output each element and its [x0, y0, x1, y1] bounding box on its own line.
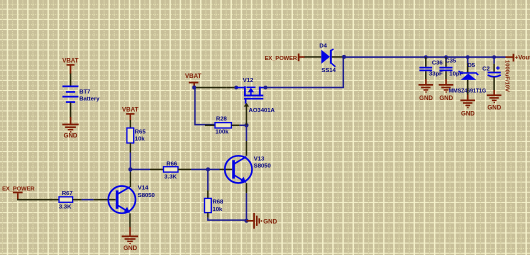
node C junction (emitter/R68/GND) — [245, 219, 249, 223]
svg-text:R68: R68 — [213, 200, 225, 206]
svg-text:EX_POWER: EX_POWER — [265, 56, 298, 62]
ground (battery GND) — [62, 117, 78, 139]
wire rail to C2 — [493, 57, 495, 64]
wire node B down to R68 — [207, 169, 209, 190]
svg-text:VBAT: VBAT — [122, 107, 139, 114]
junction dot V12 source — [234, 86, 238, 90]
svg-text:3.3K: 3.3K — [164, 175, 177, 181]
power port VBAT (V12 branch) — [185, 73, 202, 88]
svg-text:SS14: SS14 — [321, 68, 336, 74]
svg-text:R66: R66 — [166, 162, 178, 168]
wire EX_POWER to R67 — [17, 199, 52, 201]
svg-text:GND: GND — [461, 110, 475, 117]
capacitor C36 — [419, 67, 432, 71]
pin D5 anode — [467, 80, 469, 95]
junction dot D5 on rail — [466, 55, 470, 59]
ground (C36 GND) — [419, 79, 434, 102]
svg-text:GND: GND — [263, 219, 277, 226]
wire battery positive pin — [70, 74, 72, 87]
svg-text:V12: V12 — [243, 78, 254, 84]
svg-text:3.3K: 3.3K — [59, 205, 72, 211]
svg-text:D4: D4 — [319, 43, 327, 49]
pin R28 left — [205, 125, 215, 127]
wire R67 to V14 base — [82, 199, 94, 201]
svg-text:C35: C35 — [445, 59, 457, 65]
resistor R68 — [205, 198, 212, 212]
wire EX_POWER to D4 anode — [305, 56, 313, 58]
pin R66 right — [178, 169, 191, 171]
pin R68 top — [207, 190, 209, 198]
pin R67 right — [73, 199, 82, 201]
junction dot C36 on rail — [424, 55, 428, 59]
power port EX_POWER (right) — [265, 54, 305, 62]
node F junction (D4/drain riser/rail) — [342, 55, 346, 59]
node B junction (R68/V13 base) — [206, 167, 210, 171]
wire V13 emitter to node C — [246, 193, 248, 221]
junction dot C35 on rail — [444, 55, 448, 59]
pin C36 top — [425, 57, 427, 67]
wire output rail — [344, 56, 506, 58]
wire R65 to node A — [130, 153, 132, 170]
pin V13 collector — [246, 141, 248, 156]
power port VBAT (battery branch) — [62, 58, 79, 74]
svg-text:1000uF/10V: 1000uF/10V — [504, 60, 510, 92]
svg-text:VBAT: VBAT — [62, 58, 79, 65]
svg-text:V13: V13 — [254, 156, 265, 162]
svg-text:10k: 10k — [135, 137, 146, 143]
svg-text:VBAT: VBAT — [185, 73, 202, 80]
mosfet V12 AO3401A — [236, 86, 265, 103]
svg-text:33pF: 33pF — [429, 72, 443, 78]
pin V12 source — [226, 87, 236, 89]
pin C35 top — [445, 57, 447, 67]
transistor V13 S8050 — [225, 156, 252, 183]
svg-text:C36: C36 — [432, 61, 444, 67]
junction dot V12 drain — [264, 86, 268, 90]
svg-text:100k: 100k — [215, 129, 229, 135]
svg-text:R67: R67 — [62, 191, 74, 197]
power port +Vout — [506, 54, 530, 62]
node D junction (gate/R28/V13 collector) — [245, 123, 249, 127]
zener diode D5 MMSZ4691T1G — [459, 71, 479, 80]
wire rail to D5 cathode — [467, 57, 469, 63]
pin R66 left — [150, 169, 164, 171]
capacitor C35 — [439, 67, 452, 71]
ground (C35 GND) — [439, 79, 454, 102]
power port EX_POWER (left) — [2, 186, 35, 199]
wire battery negative pin — [70, 103, 72, 118]
ground (V14 GND) — [122, 227, 138, 252]
resistor R67 — [59, 197, 73, 203]
wire V12 drain to output rail riser — [266, 57, 344, 88]
ground (D5 GND) — [460, 95, 475, 118]
diode D4 SS14 schottky — [321, 49, 335, 67]
battery BT7 — [62, 86, 78, 103]
svg-text:AO3401A: AO3401A — [249, 108, 276, 114]
pin V12 gate with arrow — [244, 103, 249, 126]
pin R28 right — [231, 125, 239, 127]
svg-text:GND: GND — [439, 95, 453, 102]
pin R67 left — [50, 199, 59, 201]
pin C2 bottom — [493, 77, 495, 90]
wire node A to R66 — [130, 169, 150, 171]
pin D4 cathode — [332, 56, 343, 58]
transistor V14 S8050 — [108, 186, 135, 213]
svg-text:GND: GND — [64, 132, 78, 139]
resistor R65 — [127, 128, 134, 143]
svg-text:R28: R28 — [216, 116, 228, 122]
svg-text:D5: D5 — [468, 63, 476, 69]
wire R68 to emitter node C — [208, 218, 247, 221]
pin R65 top — [130, 120, 132, 128]
wire R66 to node B — [191, 169, 208, 171]
svg-text:GND: GND — [487, 105, 501, 112]
svg-text:+Vout: +Vout — [515, 56, 530, 62]
ground (V13 GND, rotated right) — [247, 213, 278, 229]
node E junction (VBAT/V12 source/R28) — [192, 86, 196, 90]
pin D5 cathode — [467, 63, 469, 72]
junction dot C2 on rail — [492, 55, 496, 59]
svg-text:GND: GND — [419, 95, 433, 102]
pin C2 top — [493, 64, 495, 72]
svg-text:Battery: Battery — [79, 96, 100, 102]
wire VBAT node E to V12 source — [196, 87, 226, 89]
pin V13 emitter — [246, 183, 248, 193]
pin V13 base — [220, 169, 233, 171]
svg-text:EX_POWER: EX_POWER — [2, 186, 35, 192]
svg-text:10k: 10k — [213, 207, 224, 213]
pin R68 bottom — [207, 213, 209, 218]
pin V14 collector — [130, 172, 132, 187]
svg-text:C2: C2 — [482, 66, 490, 72]
resistor R28 — [215, 123, 231, 128]
svg-text:V14: V14 — [138, 186, 149, 192]
svg-text:BT7: BT7 — [79, 89, 91, 95]
power port VBAT (R65 branch) — [122, 107, 139, 121]
svg-text:GND: GND — [123, 245, 137, 252]
pin C35 bottom — [445, 71, 447, 79]
wire node B to V13 base — [208, 169, 220, 171]
svg-text:S8050: S8050 — [254, 164, 272, 170]
svg-text:S8050: S8050 — [138, 193, 156, 199]
wire V12 node E down to R28 — [195, 88, 215, 125]
wire V13 collector to node D — [246, 125, 248, 141]
resistor R66 — [164, 167, 179, 172]
capacitor C2 electrolytic — [488, 66, 501, 77]
node A junction (R65/R66/V14 collector) — [128, 167, 132, 171]
pin R65 bottom — [130, 143, 132, 153]
svg-text:R65: R65 — [135, 130, 147, 136]
pin V14 base — [94, 199, 116, 201]
pin C36 bottom — [425, 71, 427, 79]
pin V14 emitter — [129, 213, 131, 227]
pin D4 anode — [313, 56, 322, 58]
wire V14 collector to node A — [130, 169, 132, 172]
wire R28 to node D — [239, 125, 246, 127]
ground (C2 GND) — [487, 90, 502, 112]
